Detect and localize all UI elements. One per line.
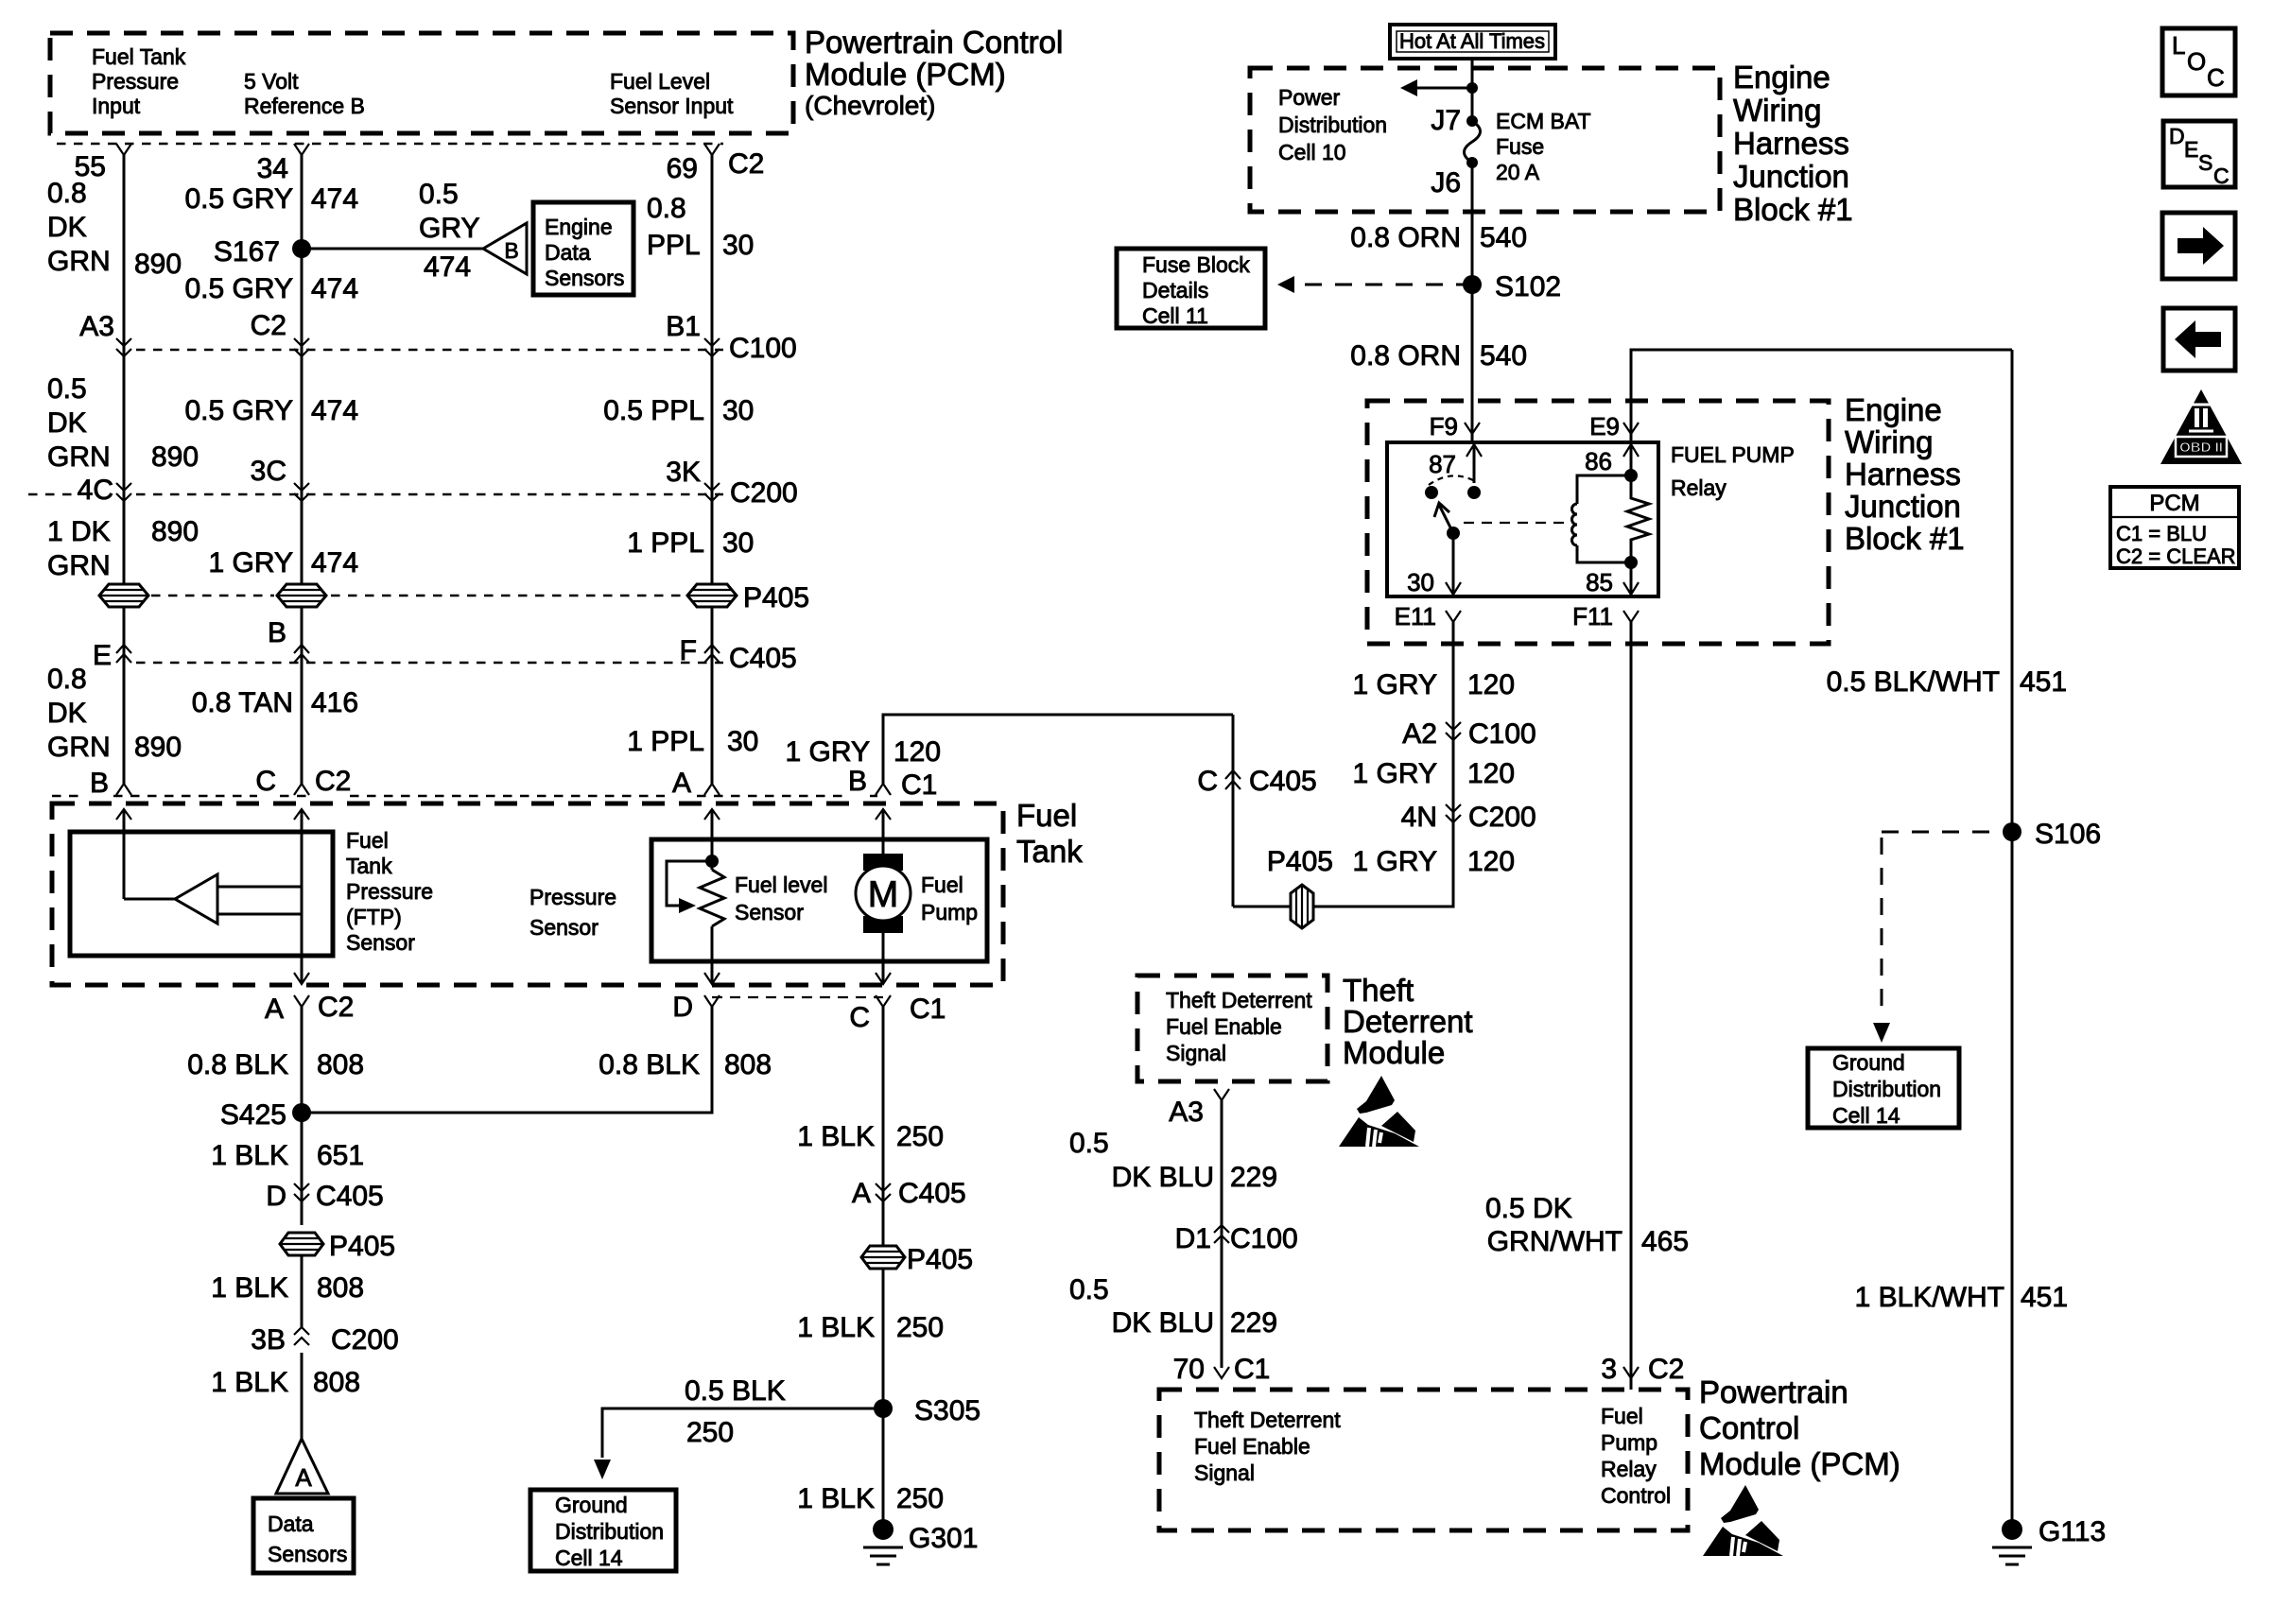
svg-text:Cell 10: Cell 10 <box>1278 140 1346 164</box>
svg-text:Sensor: Sensor <box>735 900 804 924</box>
svg-text:229: 229 <box>1230 1162 1277 1193</box>
svg-text:P405: P405 <box>743 582 809 613</box>
svg-text:GRN: GRN <box>47 732 111 763</box>
icon OBD II triangle <box>2160 389 2242 464</box>
connector C405 (pin C) <box>1197 766 1316 797</box>
svg-text:A: A <box>852 1178 871 1209</box>
svg-text:D: D <box>2169 124 2185 148</box>
icon arrow left <box>2163 308 2235 371</box>
fuel pump motor M <box>856 809 978 984</box>
svg-text:A3: A3 <box>1169 1097 1204 1128</box>
wire 229 (0.5 DK BLU) A3 to C100 <box>1069 1128 1277 1193</box>
svg-text:1 BLK: 1 BLK <box>797 1312 875 1343</box>
svg-text:Pump: Pump <box>921 900 978 924</box>
connector C2 (pin 3) <box>1601 1354 1684 1385</box>
svg-text:0.8: 0.8 <box>47 178 87 209</box>
svg-text:O: O <box>2187 47 2206 76</box>
wire 451 (0.5 BLK/WHT) right leg <box>1827 350 2068 1529</box>
Theft Deterrent Fuel Enable Signal dashed box <box>1137 976 1327 1081</box>
svg-text:Signal: Signal <box>1166 1041 1226 1065</box>
relay pin 87 <box>1429 442 1482 499</box>
wire 808 (1 BLK) C200 to data sensors <box>211 1353 360 1439</box>
svg-text:B: B <box>90 768 109 799</box>
svg-text:Harness: Harness <box>1733 126 1849 161</box>
svg-text:C1: C1 <box>901 769 937 801</box>
svg-text:B: B <box>504 238 518 263</box>
svg-text:OBD II: OBD II <box>2179 440 2223 456</box>
connector row below fuel tank <box>265 992 946 1033</box>
Hot At All Times box <box>1390 25 1555 59</box>
svg-text:C405: C405 <box>729 643 797 674</box>
svg-text:C100: C100 <box>1468 718 1536 750</box>
svg-text:ECM BAT: ECM BAT <box>1496 109 1591 133</box>
splice S102 with dashed arrow <box>1277 271 1561 302</box>
svg-text:C: C <box>2213 164 2230 188</box>
svg-text:C2 = CLEAR: C2 = CLEAR <box>2116 544 2236 568</box>
svg-text:Fuel Enable: Fuel Enable <box>1166 1014 1282 1039</box>
svg-text:Theft Deterrent: Theft Deterrent <box>1166 988 1312 1012</box>
svg-text:120: 120 <box>1467 669 1515 700</box>
svg-text:540: 540 <box>1480 340 1527 371</box>
svg-text:Tank: Tank <box>346 854 392 878</box>
svg-text:0.8 BLK: 0.8 BLK <box>599 1049 700 1080</box>
svg-text:F11: F11 <box>1572 602 1613 631</box>
svg-text:0.5 BLK: 0.5 BLK <box>685 1375 786 1407</box>
svg-text:GRY: GRY <box>419 213 479 244</box>
svg-text:86: 86 <box>1585 447 1612 475</box>
svg-text:B: B <box>268 617 286 648</box>
wire 890 (0.5 DK GRN) C100 to C200 <box>47 373 199 473</box>
svg-text:Block #1: Block #1 <box>1733 192 1853 227</box>
wire exit arrowheads from fuel tank <box>294 973 891 984</box>
svg-text:S: S <box>2198 150 2212 175</box>
svg-text:C405: C405 <box>316 1181 384 1212</box>
Fuse Block Details box <box>1117 249 1265 328</box>
svg-text:C200: C200 <box>730 477 798 509</box>
svg-text:30: 30 <box>722 230 754 261</box>
svg-text:C1 = BLU: C1 = BLU <box>2116 522 2207 545</box>
fuel level sensor resistor <box>667 809 827 984</box>
connector C100 (pin A2) <box>1402 718 1536 750</box>
svg-text:C: C <box>849 1002 870 1033</box>
svg-text:651: 651 <box>317 1140 364 1171</box>
svg-text:J6: J6 <box>1431 167 1461 199</box>
svg-text:C2: C2 <box>318 992 354 1023</box>
svg-text:1 BLK: 1 BLK <box>211 1272 288 1304</box>
PCM connector legend box <box>2110 487 2239 568</box>
svg-text:1 GRY: 1 GRY <box>209 547 294 579</box>
fuse ECM BAT 20A <box>1431 105 1590 199</box>
svg-text:Fuel: Fuel <box>346 828 389 853</box>
svg-text:890: 890 <box>151 441 199 473</box>
svg-text:890: 890 <box>134 732 182 763</box>
svg-text:B1: B1 <box>666 311 701 342</box>
svg-text:Powertrain: Powertrain <box>1699 1374 1848 1409</box>
svg-text:C200: C200 <box>331 1324 399 1356</box>
wire 474 (1 GRY) C200 to P405 <box>209 547 359 579</box>
relay coil <box>1572 442 1640 562</box>
wire 416 (0.8 TAN) C405 to fuel tank <box>192 687 358 718</box>
wire 250 (1 BLK) P405 to S305 <box>797 1312 944 1343</box>
Ground Distribution Cell 14 box (right) <box>1808 1048 1959 1128</box>
connector C1/C2 row above fuel tank <box>52 766 937 801</box>
svg-text:0.8 TAN: 0.8 TAN <box>192 687 293 718</box>
svg-text:5 Volt: 5 Volt <box>244 69 299 94</box>
svg-text:C1: C1 <box>1234 1354 1270 1385</box>
wire 250 (1 BLK) pump ground <box>797 1007 944 1529</box>
relay internal dashed link <box>1464 522 1568 524</box>
wire 808 (0.8 BLK) pressure sensor ground <box>302 1007 772 1113</box>
svg-text:E: E <box>93 640 112 671</box>
svg-text:30: 30 <box>722 527 754 559</box>
svg-text:(FTP): (FTP) <box>346 905 402 929</box>
pin E9 <box>1589 412 1639 442</box>
svg-text:70: 70 <box>1173 1354 1205 1385</box>
svg-text:A: A <box>265 993 284 1025</box>
connector C200 row <box>28 456 798 509</box>
svg-text:M: M <box>868 874 899 915</box>
svg-text:S167: S167 <box>214 236 280 268</box>
svg-text:465: 465 <box>1641 1226 1689 1257</box>
icon arrow right <box>2162 213 2235 279</box>
svg-text:DK: DK <box>47 698 87 729</box>
label Powertrain Control Module (PCM) bottom <box>1699 1374 1900 1481</box>
wire 540 (0.8 ORN) fuse to S102 <box>1350 163 1527 285</box>
pin F9 <box>1430 412 1480 442</box>
svg-text:Harness: Harness <box>1845 457 1961 492</box>
relay switch <box>1407 475 1475 596</box>
svg-text:C2: C2 <box>251 310 286 341</box>
svg-text:808: 808 <box>724 1049 772 1080</box>
grommet P405 row <box>99 582 809 613</box>
svg-text:C2: C2 <box>1648 1354 1684 1385</box>
svg-text:120: 120 <box>894 736 941 768</box>
svg-text:Ground: Ground <box>1832 1050 1905 1075</box>
svg-text:30: 30 <box>1407 568 1434 596</box>
svg-text:C200: C200 <box>1468 802 1536 833</box>
svg-text:C: C <box>2207 63 2225 92</box>
wire 120 (1 GRY) fuel pump feed corner <box>786 715 1234 784</box>
svg-text:A: A <box>672 768 691 799</box>
svg-text:C100: C100 <box>1230 1223 1298 1254</box>
wire 540 (0.8 ORN) S102 to junction block <box>1350 285 1527 414</box>
svg-text:Fuel Tank: Fuel Tank <box>92 44 186 69</box>
svg-text:0.8 ORN: 0.8 ORN <box>1350 222 1461 253</box>
svg-text:1 PPL: 1 PPL <box>627 527 704 559</box>
svg-text:1 BLK: 1 BLK <box>211 1367 288 1398</box>
svg-text:Fuse: Fuse <box>1496 134 1544 159</box>
svg-text:3K: 3K <box>666 457 701 488</box>
svg-text:C: C <box>1197 766 1218 797</box>
svg-text:20 A: 20 A <box>1496 160 1540 184</box>
svg-text:451: 451 <box>2020 666 2067 698</box>
relay resistor <box>1624 475 1649 569</box>
svg-text:808: 808 <box>317 1272 364 1304</box>
svg-text:Tank: Tank <box>1016 834 1083 869</box>
svg-text:1 GRY: 1 GRY <box>1353 669 1438 700</box>
svg-text:P405: P405 <box>907 1244 973 1275</box>
svg-text:E: E <box>2184 137 2198 162</box>
svg-text:A3: A3 <box>79 311 114 342</box>
svg-text:808: 808 <box>313 1367 360 1398</box>
svg-text:Module: Module <box>1343 1035 1445 1070</box>
svg-text:4C: 4C <box>78 475 113 506</box>
triangle connector B <box>483 223 527 274</box>
svg-text:J7: J7 <box>1431 105 1461 136</box>
Data Sensors box <box>253 1498 354 1573</box>
ESD symbol (PCM bottom) <box>1703 1485 1783 1556</box>
svg-text:250: 250 <box>896 1312 944 1343</box>
svg-text:Module (PCM): Module (PCM) <box>805 57 1006 92</box>
svg-text:Distribution: Distribution <box>1832 1077 1941 1101</box>
svg-text:1 GRY: 1 GRY <box>1353 758 1438 789</box>
svg-text:Input: Input <box>92 94 141 118</box>
svg-text:87: 87 <box>1429 450 1456 478</box>
svg-text:Junction: Junction <box>1733 159 1849 194</box>
svg-text:Junction: Junction <box>1845 489 1961 524</box>
svg-text:G113: G113 <box>2039 1516 2106 1547</box>
svg-text:Relay: Relay <box>1601 1457 1657 1481</box>
connector C200 (pin 4N) <box>1401 802 1536 833</box>
svg-text:0.5: 0.5 <box>1069 1128 1109 1159</box>
wire 120 (1 GRY) C405 to pump feed <box>1232 715 1235 907</box>
wire 474 branch to engine data sensors <box>302 179 483 283</box>
icon DESC <box>2163 121 2235 188</box>
triangle connector A (data sensors) <box>276 1439 328 1494</box>
svg-text:890: 890 <box>151 516 199 547</box>
svg-text:1 PPL: 1 PPL <box>627 726 704 757</box>
svg-text:0.8 BLK: 0.8 BLK <box>187 1049 288 1080</box>
svg-text:Distribution: Distribution <box>555 1519 664 1544</box>
svg-text:Data: Data <box>545 240 591 265</box>
Engine Data Sensors box <box>533 202 633 295</box>
ground G301 <box>863 1519 978 1564</box>
wire 30 (1 PPL) C200 to P405 <box>627 527 754 559</box>
splice S425 <box>220 1099 311 1131</box>
svg-text:4N: 4N <box>1401 802 1437 833</box>
svg-text:C100: C100 <box>729 333 797 364</box>
svg-text:Engine: Engine <box>545 215 613 239</box>
svg-text:A: A <box>295 1463 312 1492</box>
svg-text:Data: Data <box>268 1512 314 1536</box>
svg-text:C1: C1 <box>910 993 946 1025</box>
svg-text:F9: F9 <box>1430 412 1458 441</box>
svg-text:PCM: PCM <box>2149 491 2199 516</box>
svg-text:DK BLU: DK BLU <box>1112 1307 1214 1339</box>
svg-text:85: 85 <box>1586 568 1613 596</box>
svg-text:Reference B: Reference B <box>244 94 365 118</box>
grommet P405 (pump ground) <box>861 1244 973 1275</box>
connector C405 (pin D) <box>266 1181 383 1212</box>
splice S305 <box>874 1395 980 1426</box>
theft deterrent wire pin A3 <box>1169 1089 1229 1368</box>
svg-text:FUEL PUMP: FUEL PUMP <box>1671 442 1795 467</box>
wire entry arrowheads into fuel tank <box>116 809 891 820</box>
svg-text:0.5 GRY: 0.5 GRY <box>184 183 293 215</box>
connector C100 row <box>79 310 796 364</box>
svg-text:34: 34 <box>257 153 288 184</box>
wire 890 (0.8 DK GRN) PCM to C100 <box>47 155 182 584</box>
wire 30 (0.5 PPL) C100 to C200 <box>603 395 754 426</box>
svg-text:Relay: Relay <box>1671 475 1726 500</box>
splice S106 <box>2003 819 2101 850</box>
svg-text:S106: S106 <box>2035 819 2101 850</box>
Fuel level sensor / pump box <box>651 839 987 961</box>
svg-text:PPL: PPL <box>647 230 701 261</box>
Power Distribution dashed box <box>1250 68 1720 212</box>
svg-text:451: 451 <box>2021 1282 2068 1313</box>
svg-text:Ground: Ground <box>555 1493 628 1517</box>
svg-text:L: L <box>2172 31 2185 60</box>
wire 474 (0.5 GRY) PCM to C100 <box>184 155 358 584</box>
svg-text:540: 540 <box>1480 222 1527 253</box>
ground G113 <box>1992 1516 2106 1564</box>
svg-text:474: 474 <box>311 547 358 579</box>
wire 30 (1 PPL) C405 to fuel tank <box>627 726 758 757</box>
svg-text:S425: S425 <box>220 1099 286 1131</box>
wire 250 (0.5 BLK) branch to ground distribution <box>594 1375 883 1479</box>
PCM module dashed box (top left) <box>50 33 793 133</box>
svg-text:3: 3 <box>1601 1354 1617 1385</box>
arrow to power distribution <box>1400 79 1478 96</box>
svg-text:120: 120 <box>1467 758 1515 789</box>
svg-text:0.5 BLK/WHT: 0.5 BLK/WHT <box>1827 666 2000 698</box>
svg-text:0.8: 0.8 <box>647 193 686 224</box>
wire 250 (1 BLK) S305 to G301 <box>797 1483 944 1514</box>
svg-text:1 BLK: 1 BLK <box>797 1483 875 1514</box>
svg-text:229: 229 <box>1230 1307 1277 1339</box>
wire F11 to PCM pin 3 <box>1485 622 1689 1390</box>
svg-text:0.8: 0.8 <box>47 664 87 695</box>
svg-text:0.8 ORN: 0.8 ORN <box>1350 340 1461 371</box>
label Engine Wiring Harness Junction Block 1 (top) <box>1733 60 1853 227</box>
svg-text:Engine: Engine <box>1733 60 1831 95</box>
svg-text:Wiring: Wiring <box>1845 424 1934 459</box>
svg-text:Cell 14: Cell 14 <box>1832 1103 1900 1128</box>
svg-text:E9: E9 <box>1589 412 1620 441</box>
svg-text:A2: A2 <box>1402 718 1437 750</box>
svg-text:C2: C2 <box>315 766 351 797</box>
svg-text:0.5 DK: 0.5 DK <box>1485 1193 1572 1224</box>
icon LOC <box>2162 28 2235 95</box>
ESD symbol (theft deterrent module) <box>1339 1076 1419 1147</box>
svg-text:D: D <box>266 1181 286 1212</box>
svg-text:Block #1: Block #1 <box>1845 521 1965 556</box>
svg-text:120: 120 <box>1467 846 1515 877</box>
svg-text:0.5: 0.5 <box>47 373 87 405</box>
wire 808 (0.8 BLK) FTP ground <box>187 1007 364 1113</box>
svg-text:0.5 PPL: 0.5 PPL <box>603 395 704 426</box>
label Theft Deterrent Module <box>1343 973 1473 1070</box>
svg-text:Cell 11: Cell 11 <box>1142 303 1208 328</box>
svg-text:Fuel: Fuel <box>921 872 963 897</box>
svg-text:3B: 3B <box>251 1324 286 1356</box>
connector C200 (pin 3B) <box>251 1324 398 1356</box>
svg-text:3C: 3C <box>251 456 286 487</box>
Fuel Tank Pressure (FTP) Sensor box <box>70 828 433 956</box>
svg-text:Module (PCM): Module (PCM) <box>1699 1446 1900 1481</box>
svg-text:Details: Details <box>1142 278 1208 302</box>
wire 229 (0.5 DK BLU) C100 to PCM <box>1069 1274 1277 1339</box>
svg-text:GRN/WHT: GRN/WHT <box>1487 1226 1622 1257</box>
svg-text:Control: Control <box>1699 1410 1799 1445</box>
svg-text:Fuel: Fuel <box>1016 798 1077 833</box>
svg-text:1 GRY: 1 GRY <box>786 736 871 768</box>
svg-text:Theft Deterrent: Theft Deterrent <box>1194 1408 1341 1432</box>
svg-text:Sensor Input: Sensor Input <box>610 94 734 118</box>
svg-text:Distribution: Distribution <box>1278 112 1387 137</box>
wire segments P405 to C405 <box>124 607 712 784</box>
connector C100 (pin D1) <box>1175 1223 1298 1254</box>
svg-text:0.5: 0.5 <box>1069 1274 1109 1305</box>
svg-text:GRN: GRN <box>47 441 111 473</box>
pin F11 <box>1572 602 1639 631</box>
svg-text:808: 808 <box>317 1049 364 1080</box>
svg-text:Control: Control <box>1601 1483 1671 1508</box>
svg-text:Hot At All Times: Hot At All Times <box>1399 29 1545 53</box>
svg-text:DK: DK <box>47 407 87 439</box>
label Fuel Tank <box>1016 798 1083 869</box>
svg-text:GRN: GRN <box>47 246 111 277</box>
label Engine Wiring Harness Junction Block 1 (relay) <box>1845 392 1965 556</box>
svg-text:Theft: Theft <box>1343 973 1414 1008</box>
svg-text:Pump: Pump <box>1601 1430 1657 1455</box>
grommet P405 (left lower) <box>280 1231 395 1262</box>
svg-text:D1: D1 <box>1175 1223 1211 1254</box>
svg-text:S102: S102 <box>1495 271 1561 302</box>
svg-text:E11: E11 <box>1395 602 1436 631</box>
svg-text:474: 474 <box>424 251 471 283</box>
svg-text:S305: S305 <box>914 1395 980 1426</box>
svg-text:Pressure: Pressure <box>346 879 433 904</box>
svg-text:30: 30 <box>722 395 754 426</box>
connector C405 row <box>93 617 797 674</box>
relay pin 85 <box>1586 562 1639 596</box>
label Powertrain Control Module (PCM) <box>805 25 1063 120</box>
svg-text:69: 69 <box>667 153 698 184</box>
svg-text:Engine: Engine <box>1845 392 1942 427</box>
svg-text:1 GRY: 1 GRY <box>1353 846 1438 877</box>
svg-text:P405: P405 <box>1267 846 1333 877</box>
svg-text:Sensor: Sensor <box>529 915 599 940</box>
svg-text:Wiring: Wiring <box>1733 93 1822 128</box>
svg-text:G301: G301 <box>909 1523 978 1554</box>
connector C2 row at PCM output <box>57 144 764 184</box>
FUEL PUMP Relay box <box>1387 442 1795 596</box>
svg-text:Sensors: Sensors <box>268 1542 347 1566</box>
svg-text:DK: DK <box>47 212 87 243</box>
svg-text:C405: C405 <box>898 1178 966 1209</box>
pin E11 <box>1395 602 1461 631</box>
Engine Wiring Harness Junction Block dashed box (relay) <box>1367 401 1829 644</box>
svg-text:Sensor: Sensor <box>346 930 415 955</box>
svg-text:D: D <box>672 992 693 1023</box>
svg-text:C: C <box>255 766 276 797</box>
wire E9 to right leg <box>1631 350 2012 414</box>
wire 474 (0.5 GRY) C100 to C200 <box>184 395 358 426</box>
svg-text:890: 890 <box>134 249 182 280</box>
svg-text:416: 416 <box>311 687 358 718</box>
splice S167 <box>214 236 311 268</box>
svg-text:Fuel Enable: Fuel Enable <box>1194 1434 1310 1459</box>
svg-text:Powertrain Control: Powertrain Control <box>805 25 1063 60</box>
svg-text:Fuel Level: Fuel Level <box>610 69 710 94</box>
svg-text:250: 250 <box>686 1417 734 1448</box>
FTP sensor amplifier triangle <box>124 809 302 924</box>
svg-text:Pressure: Pressure <box>529 885 616 909</box>
svg-text:C2: C2 <box>728 148 764 180</box>
svg-text:474: 474 <box>311 395 358 426</box>
